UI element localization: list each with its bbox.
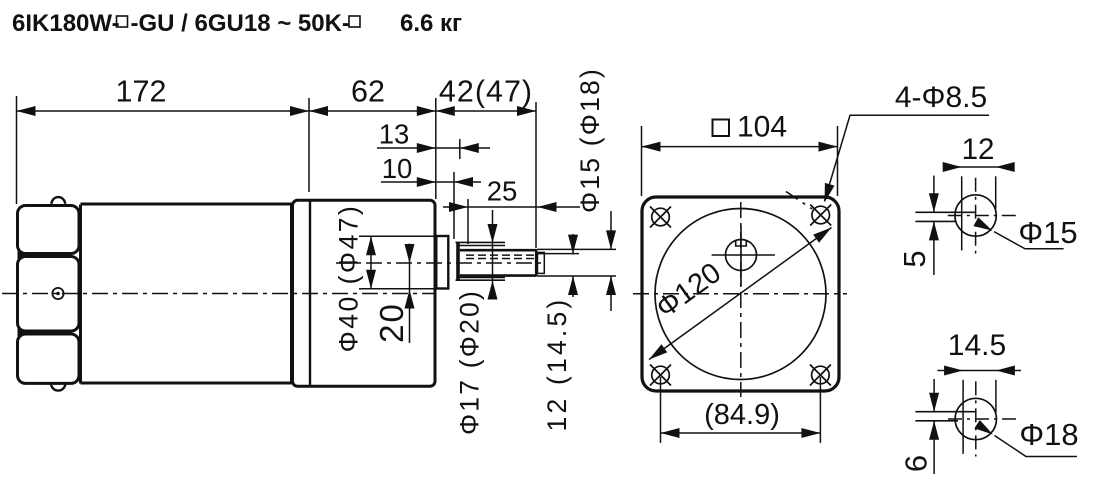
shaft hole flat notch [736, 241, 747, 246]
pilot circle Phi120 [655, 209, 826, 380]
front view texts [650, 81, 987, 431]
svg-text:10: 10 [382, 153, 413, 184]
ext 14.5 right [995, 380, 997, 413]
cover notch triangle upper [18, 250, 26, 261]
dim 6 [933, 379, 935, 412]
shaft (Phi15) [460, 250, 536, 275]
collar inner (Phi17) [458, 246, 506, 278]
dim 172 [17, 110, 310, 112]
gearbox housing [293, 200, 436, 386]
svg-text:42(47): 42(47) [439, 75, 533, 109]
dim Phi17(Phi20) leader [492, 210, 494, 294]
rear cover bump 2 [18, 257, 80, 332]
gearbox joint line [309, 201, 311, 387]
svg-text:104: 104 [737, 111, 787, 144]
svg-text:(84.9): (84.9) [704, 399, 780, 431]
side view dimension texts [116, 67, 605, 435]
detail Phi18 flat line / ext 14.5 left [962, 380, 964, 454]
svg-text:12: 12 [962, 133, 995, 166]
detail Phi15 flat line / ext 12 left [961, 176, 963, 250]
bolt hole TL [650, 207, 671, 228]
extension line 25 left [467, 199, 469, 244]
cover divider line [79, 205, 82, 384]
ext line flat top right [537, 253, 579, 255]
svg-text:6IK180W-: 6IK180W- [12, 10, 120, 37]
shaft hole crosshair [712, 254, 775, 256]
cover top screw bump [52, 197, 66, 204]
detail Phi18 texts [899, 329, 1079, 472]
extension line 42 right / shaft end [535, 102, 537, 248]
detail Phi18 circle [955, 398, 996, 439]
dim 14.5 [938, 370, 1022, 372]
dim 42(47) [436, 110, 536, 112]
motor body [81, 204, 292, 383]
extension line 172 left [16, 96, 18, 204]
ext 12 right [995, 176, 997, 209]
dim 12 [946, 166, 1012, 168]
svg-text:25: 25 [487, 176, 518, 207]
ext line shaft top right [537, 248, 616, 250]
svg-text:Φ17 (Φ20): Φ17 (Φ20) [455, 289, 485, 435]
dim 25 [443, 206, 580, 208]
ext line shaft bottom right [537, 275, 616, 277]
ext line 84.9 left [660, 377, 662, 443]
detail Phi15 step lines [915, 211, 975, 213]
dim Phi40(Phi47) vertical [370, 236, 372, 288]
svg-text:6.6 кг: 6.6 кг [400, 10, 462, 37]
ext line Phi40 top [359, 235, 437, 237]
dim 5 [933, 176, 935, 213]
extension line motor/gear joint [308, 98, 310, 192]
dim 20 vertical [409, 244, 411, 344]
dim 13 [377, 147, 490, 149]
dim 12(14.5) vertical [572, 234, 574, 254]
dim Phi15(Phi18) vertical [610, 211, 612, 249]
extension line gearbox face [435, 98, 437, 199]
detail Phi18 vertical centerline [975, 381, 977, 456]
detail Phi15 texts [897, 133, 1078, 268]
ext line sq104 left [641, 126, 643, 196]
flange square [642, 197, 839, 391]
svg-text:Φ18: Φ18 [1019, 417, 1078, 452]
svg-text:-GU / 6GU18 ~ 50K-: -GU / 6GU18 ~ 50K- [131, 10, 350, 37]
svg-text:13: 13 [379, 119, 410, 150]
detail Phi15 circle [955, 195, 996, 236]
flange vertical centerline [740, 202, 742, 397]
svg-text:Φ120: Φ120 [650, 257, 727, 325]
leader 4-Phi8.5 [825, 115, 990, 201]
svg-text:172: 172 [116, 75, 167, 109]
detail Phi15 horizontal centerline [948, 215, 1021, 217]
leader Phi18 [995, 436, 1078, 457]
svg-text:4-Φ8.5: 4-Φ8.5 [895, 81, 987, 114]
svg-text:Φ40 (Φ47): Φ40 (Φ47) [334, 204, 364, 353]
bolt hole BR [810, 365, 831, 386]
svg-text:14.5: 14.5 [948, 329, 1006, 362]
extension line 13 right [459, 139, 461, 159]
cover bottom screw bump [51, 383, 65, 390]
flange horizontal centerline [633, 293, 847, 295]
rear cover bump 1 [18, 206, 80, 254]
dim 84.9 [661, 432, 821, 434]
motor centerline [2, 293, 434, 295]
cover center screw [52, 288, 63, 299]
detail Phi18 step lines [915, 411, 975, 413]
shaft tip stub [538, 252, 545, 273]
collar left edge [456, 242, 460, 280]
detail Phi18 horizontal centerline [948, 418, 1016, 420]
svg-text:Φ15 (Φ18): Φ15 (Φ18) [575, 67, 605, 213]
dim 10 [381, 181, 481, 183]
collar outer (Phi20) [456, 242, 506, 280]
dim 62 [309, 110, 436, 112]
cover notch triangle lower [18, 327, 26, 338]
svg-text:12 (14.5): 12 (14.5) [542, 297, 572, 432]
leader Phi15 [994, 232, 1064, 249]
detail Phi15 vertical centerline [975, 178, 977, 254]
shaft flat hidden lines [466, 255, 534, 258]
ext line sq104 right [837, 126, 839, 196]
svg-text:Φ15: Φ15 [1018, 215, 1077, 250]
dim Phi120 diagonal [649, 228, 832, 360]
bolt hole TR [810, 205, 831, 226]
ext line 84.9 right [819, 377, 821, 443]
svg-text:5: 5 [897, 250, 932, 267]
svg-text:6: 6 [899, 455, 934, 472]
TR hole diagonal centerline dashes [786, 192, 812, 210]
ext line Phi40 bottom [359, 288, 437, 290]
svg-text:20: 20 [373, 302, 410, 343]
shaft hole [726, 240, 757, 271]
extension line 10 right [453, 172, 455, 239]
output shaft centerline [336, 262, 546, 264]
shaft end face [535, 249, 538, 276]
title line [12, 10, 462, 37]
output boss [436, 236, 448, 289]
svg-text:62: 62 [351, 75, 385, 109]
bolt hole BL [650, 365, 671, 386]
rear cover bump 3 [18, 334, 80, 383]
dim sq104 [642, 146, 838, 148]
